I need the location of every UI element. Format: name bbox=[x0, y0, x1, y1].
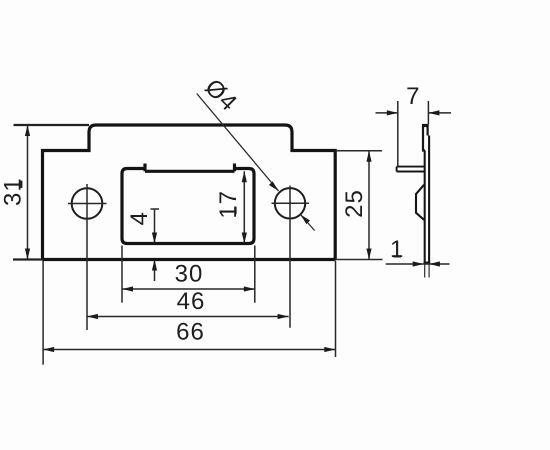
dimension 1 arrow left bbox=[413, 261, 424, 266]
dimension 4 line upper bbox=[154, 209, 156, 244]
dimension 25 arrow top bbox=[366, 151, 371, 162]
dimension 30 extension left bbox=[121, 246, 123, 303]
dimension 46 arrow right bbox=[278, 314, 289, 319]
dimension 1 line bbox=[386, 263, 450, 265]
bottom edge extension right (for 25) bbox=[336, 259, 383, 261]
dimension 7 line right bbox=[428, 112, 451, 114]
side view flange left cap bbox=[396, 167, 398, 172]
svg-text:4: 4 bbox=[126, 211, 153, 225]
dimension 46 line bbox=[87, 316, 289, 318]
cutout top middle edge bbox=[145, 170, 235, 173]
hole right bbox=[275, 188, 305, 218]
side view bottom extension left bbox=[424, 263, 426, 278]
side view tab left edge bbox=[422, 124, 424, 150]
tab top extension left (for 31) bbox=[14, 124, 90, 126]
dimension 4 leader top bbox=[151, 208, 160, 210]
dimension 1 arrow right bbox=[429, 261, 440, 266]
hole right centerline vertical (extension for 46) bbox=[289, 186, 291, 328]
dimension 30 arrow left bbox=[122, 286, 133, 291]
dimension 30 line bbox=[122, 288, 255, 290]
dimension 66 arrow left bbox=[43, 347, 54, 352]
plate outline (front view) bbox=[43, 125, 336, 260]
dimension 17 arrow top bbox=[242, 171, 247, 182]
diameter callout arrow bbox=[269, 181, 279, 191]
foot bar of 1 in dimension 17 text bbox=[234, 207, 236, 214]
foot bar of 1 in dimension 31 text bbox=[20, 181, 22, 188]
dimension 4 line lower bbox=[154, 260, 156, 282]
dimension 17 line bbox=[243, 171, 245, 243]
diameter callout leader tail bbox=[300, 215, 314, 231]
dimension 25 line bbox=[368, 151, 370, 260]
side view step tick bbox=[422, 149, 425, 151]
side view bottom extension right bbox=[428, 263, 430, 278]
diameter callout leader bbox=[197, 94, 279, 192]
dimension 7 extension left bbox=[397, 101, 399, 167]
svg-text:25: 25 bbox=[341, 189, 368, 218]
cutout right tick bbox=[233, 164, 236, 172]
dimension 31 arrow bottom bbox=[25, 249, 30, 260]
svg-text:66: 66 bbox=[176, 319, 205, 346]
side view bottom cap bbox=[424, 262, 431, 264]
svg-text:7: 7 bbox=[406, 83, 420, 110]
dimension 30 extension right bbox=[254, 246, 256, 303]
dimension 31 arrow top bbox=[25, 125, 30, 136]
dimension 7 arrow right bbox=[428, 110, 439, 115]
side view flange bottom line bbox=[397, 171, 425, 173]
hole right crosshair horizontal bbox=[272, 202, 310, 204]
dimension 7 line left bbox=[376, 112, 398, 114]
top edge extension right (for 25) bbox=[335, 150, 382, 152]
svg-text:31: 31 bbox=[0, 177, 27, 206]
svg-text:17: 17 bbox=[215, 190, 242, 219]
svg-text:1: 1 bbox=[390, 236, 404, 263]
hole left crosshair horizontal bbox=[68, 203, 107, 205]
hole left bbox=[72, 188, 103, 219]
side view main right edge bbox=[428, 136, 430, 263]
plate bottom edge bbox=[43, 258, 336, 261]
cutout left tick bbox=[143, 164, 146, 172]
diameter callout arrow 2 bbox=[300, 215, 310, 225]
dimension 66 arrow right bbox=[324, 347, 335, 352]
side view tab right edge bbox=[427, 124, 429, 135]
side view dimple bbox=[416, 185, 424, 220]
side view flange top line bbox=[397, 166, 425, 168]
dimension 66 line bbox=[43, 349, 335, 351]
cutout outline bbox=[122, 169, 254, 244]
bottom edge extension left (for 31) bbox=[13, 258, 43, 260]
dimension 7 extension right bbox=[427, 101, 429, 124]
side view tab top cap bbox=[422, 124, 429, 127]
dimension 4 arrow down bbox=[152, 233, 157, 244]
dimension 30 arrow right bbox=[244, 286, 255, 291]
dimension 7 arrow left bbox=[387, 110, 398, 115]
hole left centerline vertical (extension for 46) bbox=[86, 184, 88, 330]
dimension 66 extension left bbox=[42, 261, 44, 365]
dimension 31 line bbox=[27, 125, 29, 260]
foot bar of 1 in dimension 1 text bbox=[394, 255, 402, 257]
dimension 4 arrow up bbox=[152, 260, 157, 271]
dimension 25 arrow bottom bbox=[366, 249, 371, 260]
dimension 17 arrow bottom bbox=[242, 233, 247, 244]
side view main left edge bbox=[424, 151, 426, 263]
dimension 46 arrow left bbox=[87, 314, 98, 319]
svg-text:30: 30 bbox=[175, 261, 204, 288]
svg-text:46: 46 bbox=[177, 288, 206, 315]
dimension 66 extension right bbox=[335, 261, 337, 357]
